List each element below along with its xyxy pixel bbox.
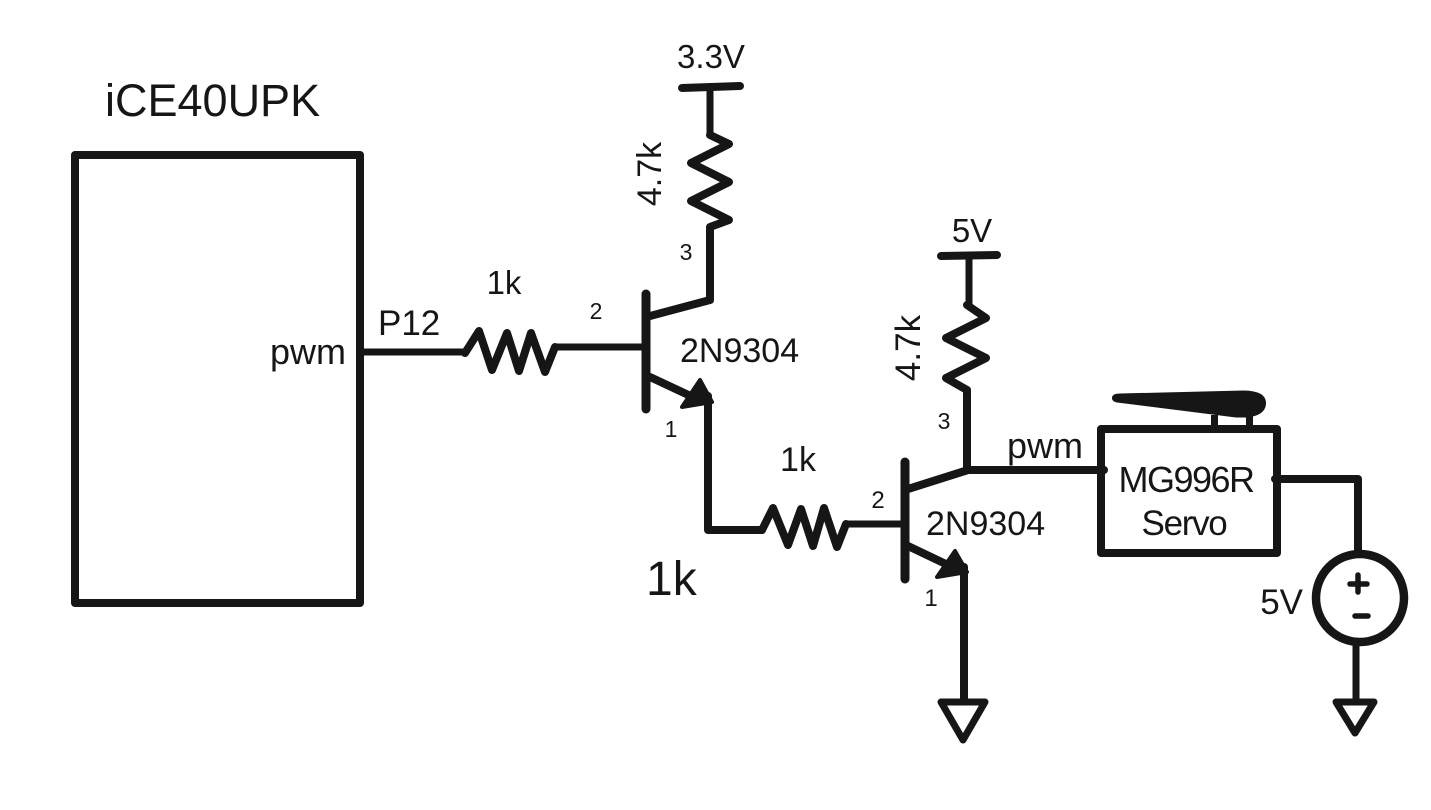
supply rail 3.3V bar — [682, 86, 740, 88]
svg-text:Servo: Servo — [1142, 504, 1227, 543]
svg-text:4.7k: 4.7k — [889, 314, 928, 381]
resistor R1 1k — [465, 331, 555, 372]
transistor Q2 emitter arrow — [937, 551, 967, 577]
svg-text:1: 1 — [665, 416, 678, 442]
source V1 5V circle — [1316, 554, 1404, 642]
wire R4 to 5V rail — [966, 256, 973, 305]
wire V1 to ground — [1353, 641, 1360, 701]
wire servo to V1 — [1275, 479, 1358, 553]
svg-text:4.7k: 4.7k — [631, 141, 669, 206]
wire R1 to Q1 base — [555, 344, 643, 351]
wire R2 to 3.3V rail — [707, 88, 714, 135]
svg-text:3: 3 — [680, 239, 693, 265]
svg-text:3.3V: 3.3V — [677, 38, 745, 75]
transistor Q2 collector stroke — [908, 470, 968, 489]
wire Q1 emitter down and across — [708, 396, 762, 530]
wire R3 to Q2 base — [846, 521, 901, 528]
transistor Q1 2N9304 base bar — [642, 294, 651, 409]
wire pwm to R1 — [362, 349, 465, 356]
resistor R2 4.7k — [691, 135, 729, 227]
svg-text:2N9304: 2N9304 — [926, 505, 1045, 543]
svg-text:1k: 1k — [487, 264, 522, 301]
resistor R4 4.7k — [946, 305, 986, 390]
ground (V1) — [1336, 702, 1374, 733]
resistor R3 1k — [762, 508, 846, 547]
servo horn blade — [1112, 391, 1266, 418]
svg-text:1: 1 — [924, 585, 937, 612]
svg-text:iCE40UPK: iCE40UPK — [105, 75, 320, 126]
source V1 minus sign — [1355, 613, 1368, 619]
wire node pwm to servo — [966, 466, 1104, 474]
svg-text:2N9304: 2N9304 — [680, 332, 799, 370]
servo horn leg left — [1211, 415, 1218, 429]
wire R4 to pwm node junction — [963, 390, 971, 468]
svg-text:5V: 5V — [1260, 583, 1303, 622]
transistor Q1 emitter stroke — [650, 377, 697, 399]
wire Q2 emitter to ground — [960, 567, 968, 700]
svg-text:5V: 5V — [952, 212, 992, 249]
servo M1 MG996R box — [1101, 429, 1277, 553]
svg-text:1k: 1k — [646, 553, 698, 606]
supply rail 5V bar — [941, 255, 997, 256]
svg-text:MG996R: MG996R — [1118, 459, 1254, 500]
ground (Q2 emitter) — [941, 702, 985, 740]
transistor Q1 emitter arrow — [682, 380, 712, 407]
svg-text:3: 3 — [938, 408, 951, 434]
svg-text:pwm: pwm — [1007, 425, 1083, 466]
transistor Q2 emitter stroke — [908, 546, 950, 566]
svg-text:1k: 1k — [780, 441, 817, 479]
transistor Q2 2N9304 base bar — [901, 462, 910, 579]
source V1 plus sign — [1350, 575, 1367, 592]
svg-text:2: 2 — [590, 298, 603, 324]
transistor Q1 collector stroke — [650, 228, 710, 316]
IC U1 iCE40UPK box — [75, 155, 360, 603]
servo horn leg right — [1246, 415, 1253, 429]
svg-text:P12: P12 — [378, 304, 440, 343]
svg-text:pwm: pwm — [270, 331, 346, 372]
svg-text:2: 2 — [871, 487, 884, 514]
